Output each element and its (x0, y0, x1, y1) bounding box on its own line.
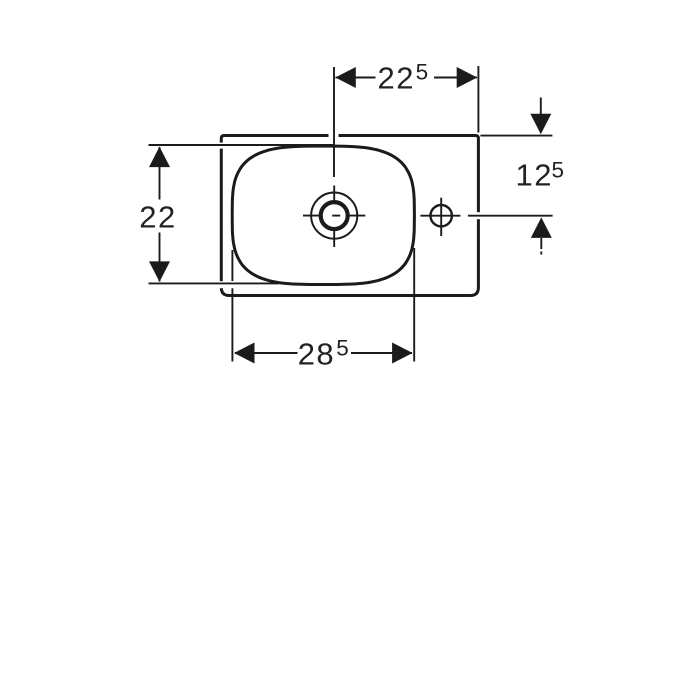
dimension 22: dimension line upper part (159, 147, 161, 200)
dimension 28-5: dimension line left part (235, 352, 298, 354)
dimension 22-5: right extension line (477, 66, 479, 133)
white gap in left edge at upper extension line (219, 143, 225, 149)
dimension 22-5: dimension line left part (336, 77, 376, 79)
white gap in right edge at tap-hole centerline (475, 212, 481, 219)
svg-text:12: 12 (516, 158, 553, 193)
dimension 22-5: left arrow (335, 67, 356, 88)
inner basin bowl (squircle) (232, 146, 414, 284)
dimension 28-5: left arrow (234, 343, 255, 364)
right tap hole circle (431, 205, 452, 226)
dimension 12-5: up arrow (531, 217, 552, 238)
svg-text:28: 28 (298, 337, 335, 372)
dimension 12-5: lower reference centerline (468, 215, 553, 217)
svg-text:22: 22 (139, 200, 176, 235)
vertical crosshair of main tap hole (333, 186, 335, 248)
dimension 28-5: right arrow (392, 343, 413, 364)
dimension 22-5: dimension line right part (434, 77, 477, 79)
svg-text:5: 5 (552, 157, 565, 182)
white gap in top edge at centerline crossing (329, 133, 339, 139)
dimension 22: lower extension line (149, 282, 280, 284)
white gap in left edge at lower extension line (219, 281, 225, 288)
main tap hole outer thin circle (311, 193, 357, 239)
svg-text:22: 22 (378, 61, 415, 96)
dimension 28-5: left extension line upper segment (231, 250, 233, 281)
svg-text:5: 5 (336, 335, 349, 360)
vertical centerline of main tap hole (upper segment) (333, 67, 335, 177)
washbasin outer outline (221, 136, 478, 296)
horizontal crosshair of main tap hole (303, 215, 365, 217)
dimension 28-5: left extension line lower segment (231, 288, 233, 361)
dimension 28-5: right extension line (413, 248, 415, 362)
dimension 22: dimension line lower part (159, 233, 161, 282)
dimension 22: upper extension line (149, 144, 334, 146)
dimension 12-5: down arrow (530, 114, 551, 135)
main tap hole thick ring (321, 202, 348, 229)
right tap hole horizontal crosshair (420, 215, 460, 217)
dimension 12-5: up arrow tail dash (540, 252, 542, 255)
dimension 22: down arrow (149, 261, 170, 282)
right tap hole vertical crosshair (440, 198, 442, 236)
dimension 12-5: upper reference line (480, 135, 552, 137)
dimension 22-5: right arrow (457, 67, 478, 88)
main tap hole center dash (332, 215, 340, 217)
dimension 22: up arrow (149, 147, 170, 168)
dimension 12-5: up arrow tail (540, 238, 542, 249)
dimension 28-5: dimension line right part (351, 352, 412, 354)
dimension 12-5: down arrow tail (540, 98, 542, 117)
svg-text:5: 5 (416, 60, 429, 85)
